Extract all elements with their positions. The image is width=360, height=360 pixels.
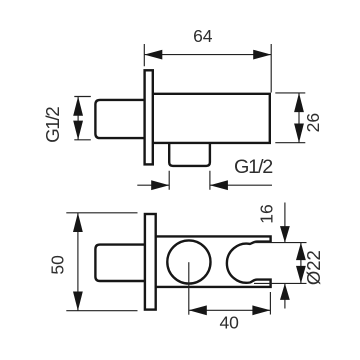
arrow O22 down — [296, 266, 306, 284]
arrow outlet left — [151, 180, 169, 190]
dim 64 extension lines — [144, 44, 271, 93]
dim 16 lines — [284, 203, 286, 309]
arrow 64 right — [253, 50, 271, 60]
circle centerline — [188, 262, 190, 315]
fork extension lines — [254, 243, 307, 284]
wall plate (side view) — [145, 70, 153, 164]
arrow 40 left — [189, 305, 207, 315]
pivot circle (plan view) — [167, 240, 210, 283]
arrow 64 left — [144, 50, 162, 60]
arrow 16 down — [280, 226, 290, 243]
dim 64 line — [144, 54, 271, 56]
svg-text:50: 50 — [47, 255, 67, 275]
dim G1/2 line — [77, 97, 79, 140]
body (side view) — [153, 94, 270, 143]
dim Ø22 line — [300, 243, 302, 284]
dim 26 line — [298, 93, 300, 143]
arrow O22 up — [296, 243, 306, 261]
arrow outlet right — [210, 180, 228, 190]
dim 40 line — [189, 309, 271, 311]
svg-text:G1/2: G1/2 — [42, 107, 63, 143]
wall plate (plan view) — [145, 214, 156, 310]
dim G1/2 ticks (side view left) — [74, 97, 91, 140]
arrow 26 down — [294, 124, 304, 143]
arrow G1/2 up — [73, 97, 83, 116]
svg-text:64: 64 — [193, 26, 213, 46]
holder arm with fork (plan view) — [156, 236, 271, 287]
dim 40 right extension — [269, 292, 271, 315]
svg-text:Ø22: Ø22 — [303, 250, 324, 285]
dim 26 extension lines — [275, 93, 305, 143]
svg-text:G1/2: G1/2 — [234, 156, 272, 178]
outlet dim extension lines — [169, 171, 210, 190]
svg-text:40: 40 — [219, 313, 239, 333]
outlet boss (side view) — [169, 143, 210, 166]
arrow 50 up — [73, 213, 83, 232]
arrow 50 down — [73, 292, 83, 311]
arrow 26 up — [294, 93, 304, 112]
arrow 16 up — [280, 283, 290, 300]
inlet thread boss (side view) — [95, 100, 146, 138]
arrow 40 right — [252, 305, 270, 315]
thread boss (plan view) — [95, 245, 150, 281]
dim 50 extension lines — [66, 213, 137, 311]
outlet dim lines — [137, 184, 272, 186]
arrow G1/2 down — [73, 121, 83, 140]
svg-text:16: 16 — [256, 204, 276, 223]
svg-text:26: 26 — [303, 113, 323, 132]
dim 50 line — [77, 213, 79, 311]
